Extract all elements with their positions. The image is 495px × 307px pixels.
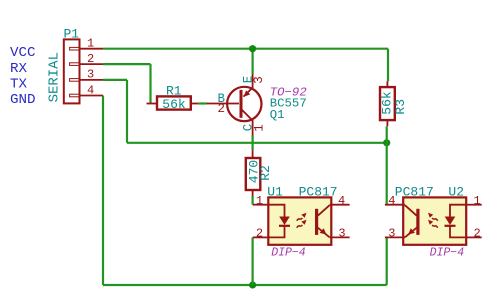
- wire U2 pin3 down to bottom bus: [386, 237, 388, 285]
- svg-text:1: 1: [474, 194, 481, 208]
- wire U1 pin2 down to bottom bus: [252, 237, 254, 285]
- svg-text:R3: R3: [393, 99, 408, 115]
- P1 pin 2: [80, 63, 104, 65]
- wire top bus VCC: [103, 48, 388, 50]
- U2 pin 4: [385, 204, 405, 206]
- U1 body: [268, 197, 331, 244]
- svg-text:DIP−4: DIP−4: [430, 247, 465, 260]
- svg-text:P1: P1: [64, 27, 80, 42]
- svg-text:2: 2: [474, 226, 481, 240]
- U2 body: [403, 197, 466, 244]
- svg-text:TX: TX: [10, 77, 28, 93]
- U1 photon arrows: [297, 218, 303, 228]
- U2 LED: [450, 205, 466, 217]
- Q1 collector diagonal: [242, 110, 253, 121]
- svg-text:U2: U2: [448, 184, 464, 199]
- U1 pin 1: [253, 204, 268, 206]
- junction top bus: [249, 45, 256, 52]
- svg-text:56k: 56k: [162, 97, 186, 112]
- svg-text:VCC: VCC: [10, 45, 36, 61]
- resistor R2: [246, 150, 260, 196]
- svg-text:R2: R2: [258, 165, 273, 181]
- Q1 collector pin: [252, 120, 254, 136]
- wire junction down to U2 pin4: [386, 143, 388, 205]
- wire bottom bus: [103, 284, 387, 286]
- wire top bus to Q1 emitter: [252, 49, 254, 74]
- wire pin4 vertical to bottom bus: [102, 96, 104, 286]
- U2 pin 2: [466, 236, 482, 238]
- wire R2 to U1 pin1: [252, 196, 254, 205]
- wire R1 to Q1 base: [198, 102, 206, 104]
- Q1 emitter diagonal: [244, 88, 253, 97]
- wire pin2 vertical to R1: [149, 64, 151, 103]
- U2 emitter arrow: [408, 228, 415, 234]
- U2 phototransistor: [416, 209, 419, 235]
- resistor R1: [147, 96, 199, 109]
- svg-text:3: 3: [338, 226, 345, 240]
- svg-text:1: 1: [256, 194, 263, 208]
- svg-text:2: 2: [256, 226, 263, 240]
- svg-text:RX: RX: [10, 61, 28, 77]
- svg-text:3: 3: [388, 226, 395, 240]
- junction bottom bus: [249, 281, 256, 288]
- svg-text:4: 4: [87, 83, 94, 97]
- Q1 emitter arrow: [244, 90, 251, 97]
- Q1 body circle: [227, 87, 261, 121]
- svg-text:SERIAL: SERIAL: [47, 52, 63, 102]
- svg-text:GND: GND: [10, 92, 36, 108]
- junction middle bus: [383, 139, 390, 146]
- U1 pin 3: [330, 236, 350, 238]
- U1 pin 4: [330, 204, 350, 206]
- U2 pin 3: [385, 236, 405, 238]
- svg-text:3: 3: [252, 76, 266, 84]
- wire R3 bottom to junction: [386, 126, 388, 143]
- wire middle bus: [127, 142, 387, 144]
- P1 pin 4: [80, 95, 104, 97]
- wire pin3 horizontal: [103, 79, 127, 81]
- svg-text:U1: U1: [267, 184, 283, 199]
- U1 phototransistor: [315, 209, 318, 235]
- P1 pin 3: [80, 79, 104, 81]
- svg-text:PC817: PC817: [395, 184, 434, 199]
- Q1 base pin: [207, 103, 240, 105]
- svg-text:2: 2: [87, 52, 94, 66]
- transistor Q1: [207, 74, 262, 136]
- wire pin2 horizontal: [103, 63, 151, 65]
- P1 pin 1: [80, 48, 104, 50]
- resistor R3: [380, 81, 395, 126]
- optocoupler U1: [253, 197, 350, 244]
- svg-text:1: 1: [87, 36, 94, 50]
- U1 emitter arrow: [320, 228, 327, 234]
- Q1 base bar: [240, 90, 243, 118]
- optocoupler U2 (mirrored graphics): [385, 197, 482, 244]
- wire pin3 vertical to middle bus: [126, 80, 128, 143]
- svg-text:3: 3: [87, 68, 94, 82]
- connector P1: [64, 39, 80, 103]
- wire top bus to R3: [387, 49, 389, 82]
- svg-text:2: 2: [218, 102, 226, 116]
- Q1 emitter pin: [252, 74, 254, 88]
- svg-text:Q1: Q1: [270, 108, 285, 122]
- wire Q1 collector to R2: [252, 136, 254, 151]
- svg-text:1: 1: [252, 124, 266, 132]
- svg-text:PC817: PC817: [299, 184, 338, 199]
- U2 photon arrows: [432, 218, 438, 228]
- U1 LED: [268, 205, 284, 217]
- svg-text:4: 4: [338, 194, 345, 208]
- U1 pin 2: [253, 236, 268, 238]
- U2 pin 1: [466, 204, 482, 206]
- svg-text:DIP−4: DIP−4: [271, 247, 306, 260]
